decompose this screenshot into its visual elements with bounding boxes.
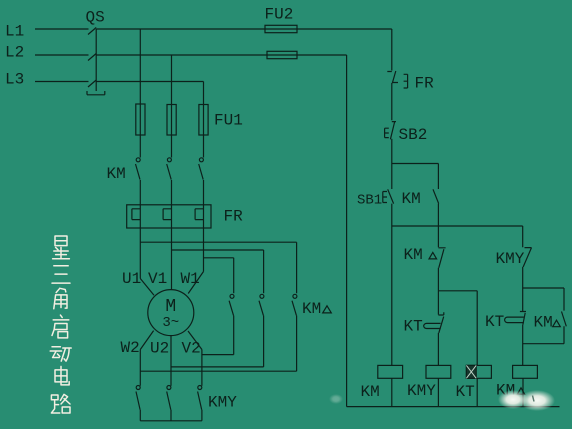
svg-text:KM: KM — [302, 300, 321, 318]
svg-text:FR: FR — [224, 207, 244, 225]
svg-text:KT: KT — [456, 383, 475, 401]
svg-text:KMY: KMY — [208, 394, 237, 412]
svg-text:KM: KM — [404, 246, 423, 264]
svg-text:SB1: SB1 — [357, 192, 382, 208]
svg-text:KM: KM — [107, 165, 126, 183]
svg-text:KM: KM — [361, 383, 380, 401]
svg-text:FU1: FU1 — [214, 111, 243, 129]
svg-text:3~: 3~ — [162, 315, 179, 331]
svg-text:KM: KM — [402, 190, 421, 208]
svg-text:QS: QS — [86, 9, 105, 27]
svg-text:KT: KT — [404, 318, 423, 336]
svg-text:L1: L1 — [5, 22, 24, 40]
svg-text:V1: V1 — [148, 270, 167, 288]
svg-text:M: M — [165, 297, 176, 317]
svg-text:SB2: SB2 — [399, 126, 428, 144]
svg-text:KMY: KMY — [496, 250, 525, 268]
svg-text:KT: KT — [485, 313, 504, 331]
svg-text:FU2: FU2 — [265, 6, 294, 24]
svg-text:W1: W1 — [181, 270, 200, 288]
svg-text:FR: FR — [415, 74, 435, 92]
svg-text:L3: L3 — [5, 71, 24, 89]
svg-text:KMY: KMY — [407, 382, 436, 400]
svg-text:U2: U2 — [150, 340, 169, 358]
svg-text:V2: V2 — [182, 340, 201, 358]
svg-text:KM: KM — [534, 314, 553, 332]
svg-text:U1: U1 — [122, 270, 141, 288]
svg-text:L2: L2 — [5, 44, 24, 62]
svg-text:W2: W2 — [121, 339, 140, 357]
